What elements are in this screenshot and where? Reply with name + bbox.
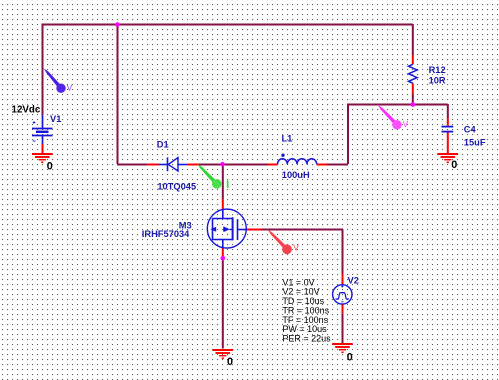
wire output riser xyxy=(347,104,349,164)
svg-text:0: 0 xyxy=(47,160,53,172)
wire C4 top stub red xyxy=(447,118,449,126)
wire inductor to riser xyxy=(327,164,348,166)
svg-text:15uF: 15uF xyxy=(464,137,486,147)
current marker diode (green) xyxy=(198,164,229,189)
ground V2 xyxy=(332,344,353,352)
wire V1 top drop xyxy=(42,24,44,115)
wire gate stub red xyxy=(247,229,262,231)
svg-text:0: 0 xyxy=(451,159,457,171)
svg-text:PER = 22us: PER = 22us xyxy=(282,334,331,344)
svg-text:V2: V2 xyxy=(348,276,359,286)
node junction dot source xyxy=(221,256,226,261)
transistor M3 body arrow left xyxy=(210,227,216,232)
node junction dot top xyxy=(115,22,120,27)
inductor L1 polarity dot xyxy=(281,154,284,157)
wire C4 drop xyxy=(447,104,449,118)
voltage marker V1 input (indigo) xyxy=(44,68,73,93)
wire MOSFET source stub red xyxy=(222,248,224,257)
wire C4 bottom stub red xyxy=(447,132,449,153)
ground V1 xyxy=(32,154,53,162)
wire MOSFET drain xyxy=(222,164,224,199)
wire diode branch drop xyxy=(117,24,119,164)
resistor R12 xyxy=(409,64,418,83)
wire gate row xyxy=(261,229,343,231)
wire V2 bottom stub red xyxy=(342,304,344,314)
wire R12 top stub red xyxy=(412,55,414,64)
wire diode anode stub red xyxy=(147,164,158,166)
wire diode to node A xyxy=(199,164,222,166)
svg-text:IRHF57034: IRHF57034 xyxy=(142,229,190,239)
V2 pulse parameter text xyxy=(282,277,331,343)
capacitor C4 xyxy=(442,127,454,132)
ground C4 xyxy=(438,154,459,162)
svg-text:D1: D1 xyxy=(157,140,169,150)
ground M3 source xyxy=(213,350,234,358)
svg-text:V1: V1 xyxy=(50,114,61,124)
svg-text:0: 0 xyxy=(227,356,233,368)
svg-text:C4: C4 xyxy=(464,125,477,135)
node junction dot A diode xyxy=(220,162,225,167)
wire output row xyxy=(347,104,448,106)
wire inductor right stub red xyxy=(317,164,327,166)
wire V2 to ground xyxy=(342,313,344,343)
voltage marker output (magenta) xyxy=(378,105,409,130)
wire R12 bottom stub red xyxy=(412,83,414,94)
wire diode row left xyxy=(117,164,147,166)
wire MOSFET source to ground xyxy=(222,257,224,349)
transistor M3 channel arrow xyxy=(224,227,230,232)
voltage source V1 battery xyxy=(32,115,53,144)
svg-text:12Vdc: 12Vdc xyxy=(12,104,41,115)
wire R12 to node B xyxy=(412,94,414,104)
diode D1 xyxy=(159,157,189,171)
wire inductor left stub red xyxy=(268,164,278,166)
pulse source V2 xyxy=(333,285,352,304)
inductor L1 xyxy=(278,159,317,165)
transistor M3 MOSFET xyxy=(207,209,246,248)
svg-text:0: 0 xyxy=(347,352,353,364)
svg-text:10R: 10R xyxy=(429,75,446,85)
wire R12 top xyxy=(412,24,414,55)
svg-text:R12: R12 xyxy=(429,65,446,75)
node junction dot B output xyxy=(411,102,416,107)
wire V2 drop xyxy=(342,229,344,273)
wire V1 to ground red xyxy=(42,144,44,154)
svg-text:V: V xyxy=(403,119,409,129)
wire top rail xyxy=(42,24,413,26)
svg-text:10TQ045: 10TQ045 xyxy=(157,182,196,192)
wire MOSFET drain stub red xyxy=(222,199,224,210)
svg-text:100uH: 100uH xyxy=(282,170,310,180)
svg-text:V: V xyxy=(293,243,299,253)
wire diode right stub red xyxy=(188,164,199,166)
wire V2 top stub red xyxy=(342,274,344,285)
wire node A to inductor xyxy=(222,164,268,166)
voltage marker gate (red) xyxy=(268,229,300,254)
svg-text:L1: L1 xyxy=(282,133,293,143)
svg-text:V: V xyxy=(67,83,73,93)
